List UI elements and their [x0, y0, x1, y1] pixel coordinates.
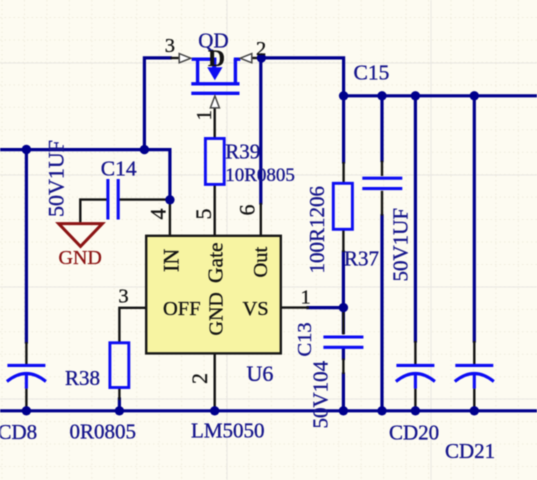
svg-text:CD21: CD21	[445, 439, 495, 463]
R37 lower pin	[342, 229, 344, 252]
pin 6 of U6	[260, 203, 262, 236]
svg-text:1: 1	[301, 286, 311, 308]
node bottom bus C13	[339, 406, 348, 415]
capacitor CD20	[396, 365, 435, 388]
wire R37 to VS node	[342, 252, 345, 308]
capacitor C15 plates	[362, 178, 402, 188]
wire VS horizontal	[308, 306, 343, 309]
svg-text:IN: IN	[159, 249, 184, 272]
svg-text:C14: C14	[101, 156, 137, 180]
capacitor C14 plates	[108, 179, 118, 220]
node CD8/IN	[22, 145, 31, 154]
resistor R39	[205, 139, 224, 185]
svg-text:50V1UF: 50V1UF	[389, 208, 413, 282]
svg-text:R37: R37	[344, 246, 379, 270]
node bottom bus C15	[377, 406, 386, 415]
node VS	[339, 303, 348, 312]
wire CD21 branch	[473, 96, 476, 341]
svg-text:Gate: Gate	[204, 242, 228, 283]
svg-text:GND: GND	[206, 292, 228, 335]
pin 1 of U6 / VS	[281, 306, 309, 308]
C15 lower pin	[381, 191, 383, 216]
wire CD20 branch	[414, 96, 417, 341]
svg-text:4: 4	[146, 209, 171, 220]
node top bus 4	[470, 91, 479, 100]
pin 2 of U6	[213, 353, 215, 409]
svg-text:6: 6	[235, 205, 260, 216]
pin 2 of QD	[252, 57, 262, 59]
CD21 lower pin	[473, 389, 475, 410]
wire pin6 riser	[259, 58, 262, 203]
node bottom bus R38	[115, 406, 124, 415]
pin 3 of QD	[170, 57, 179, 59]
wire R37 branch upper	[342, 96, 345, 162]
pin direction arrow pin2	[240, 54, 252, 63]
op-amp U6 body	[146, 236, 281, 354]
CD21 upper pin	[473, 341, 475, 364]
svg-text:2: 2	[187, 373, 212, 384]
ground symbol	[59, 224, 103, 247]
svg-text:OFF: OFF	[163, 298, 201, 320]
C14 right pin	[120, 198, 169, 200]
pin direction arrow pin1	[210, 96, 219, 108]
node bottom bus pin2	[210, 406, 219, 415]
wire C15 branch lower	[380, 216, 383, 411]
node pin2/pin6	[257, 53, 266, 62]
wire R38 to bus	[118, 399, 121, 411]
svg-text:VS: VS	[243, 298, 269, 320]
svg-text:C15: C15	[354, 61, 390, 85]
C15 upper pin	[381, 161, 383, 177]
node top bus 2	[377, 91, 386, 100]
node C14/pin4	[165, 195, 174, 204]
transistor QD body	[191, 59, 240, 93]
svg-text:CD8: CD8	[0, 420, 37, 444]
wire VS node to C13	[342, 308, 345, 333]
svg-text:50V1UF: 50V1UF	[44, 140, 69, 217]
capacitor C13 plates	[323, 337, 363, 347]
transistor QD arrow	[207, 67, 222, 80]
svg-text:R39: R39	[225, 139, 260, 163]
CD8 lower pin	[25, 389, 27, 410]
svg-text:U6: U6	[247, 361, 274, 386]
resistor R37	[333, 183, 352, 229]
resistor R38	[110, 343, 129, 388]
svg-text:C13: C13	[294, 322, 316, 356]
wire C15 branch upper	[380, 96, 383, 161]
pin 4 of U6	[169, 201, 171, 236]
R38 lower pin	[118, 388, 120, 401]
C14 left pin	[80, 200, 106, 223]
svg-text:3: 3	[118, 286, 128, 308]
wire pin2 to top bus corner	[261, 58, 343, 96]
node top bus 1	[339, 91, 348, 100]
CD8 upper pin	[25, 342, 27, 364]
capacitor CD8	[7, 365, 46, 388]
svg-text:2: 2	[256, 38, 266, 60]
wire pin3 riser	[144, 58, 170, 150]
svg-text:0R0805: 0R0805	[70, 420, 137, 444]
node bottom bus CD8	[22, 406, 31, 415]
node top bus 3	[411, 91, 420, 100]
C13 lower pin	[342, 359, 344, 375]
node pin3 riser	[140, 145, 149, 154]
pin 3 of U6 / OFF	[119, 308, 146, 343]
R37 upper pin	[342, 162, 344, 183]
pin direction arrow pin3	[179, 54, 191, 63]
CD20 upper pin	[414, 341, 416, 364]
node bottom bus CD20	[411, 406, 420, 415]
svg-text:10R0805: 10R0805	[225, 165, 295, 186]
svg-text:LM5050: LM5050	[191, 419, 265, 443]
svg-text:1: 1	[192, 110, 216, 121]
wire C13 lower	[342, 349, 345, 359]
wire IN net horizontal y150	[0, 150, 170, 201]
wire C13 to bottom bus	[342, 374, 345, 411]
svg-text:CD20: CD20	[389, 421, 439, 445]
pin 5 wire R39 to chip	[213, 184, 215, 235]
capacitor CD21	[455, 365, 494, 388]
svg-text:Out: Out	[250, 246, 272, 277]
svg-text:3: 3	[165, 35, 175, 57]
CD20 lower pin	[414, 389, 416, 410]
wire top bus	[344, 94, 537, 97]
svg-text:50V104: 50V104	[309, 360, 333, 428]
C13 upper pin	[342, 311, 344, 335]
svg-text:R38: R38	[65, 366, 100, 390]
node bottom bus CD21	[470, 406, 479, 415]
wire CD8 branch	[25, 150, 28, 343]
svg-text:5: 5	[191, 209, 216, 220]
wire bottom bus	[0, 409, 537, 412]
svg-text:100R1206: 100R1206	[305, 186, 329, 274]
svg-text:D: D	[208, 46, 225, 72]
pin 1 of QD to R39	[213, 108, 215, 139]
svg-text:GND: GND	[59, 247, 102, 269]
